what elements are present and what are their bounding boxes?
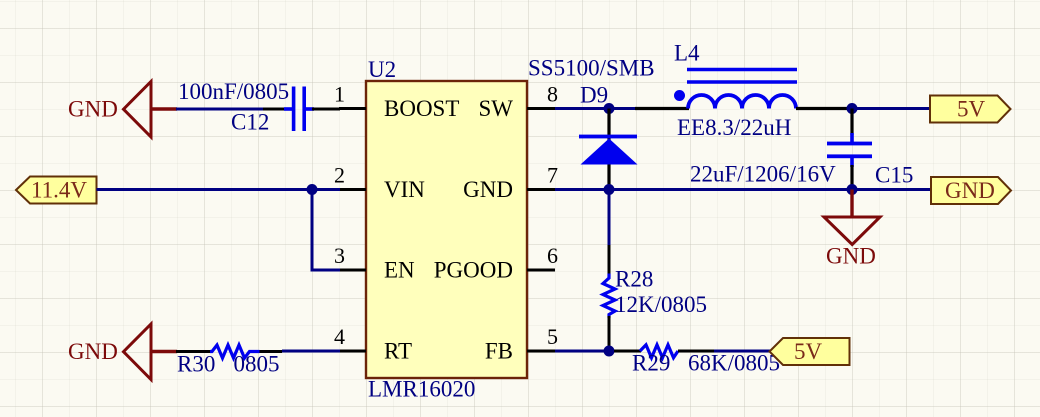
pin 4 RT stub xyxy=(339,350,366,353)
junction VIN node xyxy=(307,184,318,195)
svg-text:R29: R29 xyxy=(632,351,670,376)
pin 1 BOOST stub xyxy=(339,107,366,110)
svg-text:C15: C15 xyxy=(875,163,913,188)
svg-text:L4: L4 xyxy=(674,41,700,66)
svg-text:68K/0805: 68K/0805 xyxy=(688,351,780,376)
svg-text:5V: 5V xyxy=(794,339,823,364)
svg-text:GND: GND xyxy=(463,177,513,202)
svg-text:R28: R28 xyxy=(615,267,653,292)
ground symbol GND (bottom left) xyxy=(68,324,177,380)
port GND (right) xyxy=(931,177,1011,204)
pin 2 VIN stub xyxy=(339,188,366,191)
svg-text:11.4V: 11.4V xyxy=(31,178,87,203)
resistor R28 12K/0805 xyxy=(603,245,615,351)
port 11.4V xyxy=(16,177,97,204)
svg-text:3: 3 xyxy=(334,243,345,268)
pin 6 PGOOD stub xyxy=(527,269,555,272)
svg-text:2: 2 xyxy=(334,163,345,188)
svg-text:SS5100/SMB: SS5100/SMB xyxy=(528,56,655,81)
wire SW node down to R28 xyxy=(608,190,611,247)
svg-text:D9: D9 xyxy=(580,83,608,108)
svg-text:C12: C12 xyxy=(231,110,269,135)
wire SW node to L4 xyxy=(612,107,637,110)
svg-text:GND: GND xyxy=(945,178,995,203)
junction FB node xyxy=(604,346,615,357)
svg-text:1: 1 xyxy=(334,82,345,107)
svg-text:R30: R30 xyxy=(177,352,215,377)
wire 11.4V to VIN xyxy=(97,188,341,191)
svg-text:VIN: VIN xyxy=(384,177,425,202)
wire R30 to RT pin xyxy=(282,350,340,353)
junction D9 cathode GND node xyxy=(604,184,615,195)
svg-text:8: 8 xyxy=(547,82,558,107)
wire FB pin to node xyxy=(555,350,616,353)
capacitor C15 22uF/1206/16V xyxy=(827,109,872,190)
junction SW node xyxy=(604,103,615,114)
svg-text:22uF/1206/16V: 22uF/1206/16V xyxy=(690,162,836,187)
pin 7 GND stub xyxy=(527,188,555,191)
wire GND to C12 xyxy=(176,108,263,111)
pin 5 FB stub xyxy=(527,350,555,353)
svg-text:7: 7 xyxy=(547,163,558,188)
svg-text:GND: GND xyxy=(68,339,118,364)
svg-text:U2: U2 xyxy=(368,57,396,82)
pin 3 EN stub xyxy=(339,269,366,272)
pin 8 SW stub xyxy=(527,107,555,110)
svg-text:5V: 5V xyxy=(957,97,986,122)
junction SW-out node xyxy=(847,103,858,114)
junction C15 GND node xyxy=(847,184,858,195)
resistor R29 68K/0805 xyxy=(614,345,714,358)
svg-text:EE8.3/22uH: EE8.3/22uH xyxy=(677,115,791,140)
svg-text:EN: EN xyxy=(384,258,415,283)
svg-text:6: 6 xyxy=(547,243,558,268)
wire SW pin to node xyxy=(555,107,612,110)
diode D9 SS5100/SMB xyxy=(579,109,638,190)
svg-text:100nF/0805: 100nF/0805 xyxy=(178,79,289,104)
svg-text:LMR16020: LMR16020 xyxy=(368,377,475,402)
wire GND pin 7 to GND port xyxy=(555,188,932,191)
svg-text:FB: FB xyxy=(485,339,513,364)
svg-text:4: 4 xyxy=(334,324,345,349)
capacitor C12 100nF/0805 xyxy=(263,87,340,132)
IC U2 body LMR16020 xyxy=(366,81,527,378)
ground symbol GND (top left) xyxy=(68,82,177,138)
svg-text:GND: GND xyxy=(826,243,876,268)
inductor L4 xyxy=(635,70,852,109)
svg-text:0805: 0805 xyxy=(234,352,280,377)
svg-text:RT: RT xyxy=(384,339,412,364)
svg-text:BOOST: BOOST xyxy=(384,96,459,121)
wire VIN branch down to EN xyxy=(312,190,340,271)
svg-text:GND: GND xyxy=(68,97,118,122)
wire R29 to 5V port xyxy=(714,350,770,353)
wire node to 5V port xyxy=(852,107,931,110)
svg-text:12K/0805: 12K/0805 xyxy=(615,292,707,317)
svg-text:PGOOD: PGOOD xyxy=(434,258,513,283)
ground symbol GND (below C15) xyxy=(824,190,880,269)
port 5V (top right) xyxy=(930,96,1011,123)
svg-text:SW: SW xyxy=(479,96,514,121)
resistor R30 0805 xyxy=(176,345,282,358)
svg-text:5: 5 xyxy=(547,324,558,349)
port 5V (bottom) xyxy=(770,338,850,365)
